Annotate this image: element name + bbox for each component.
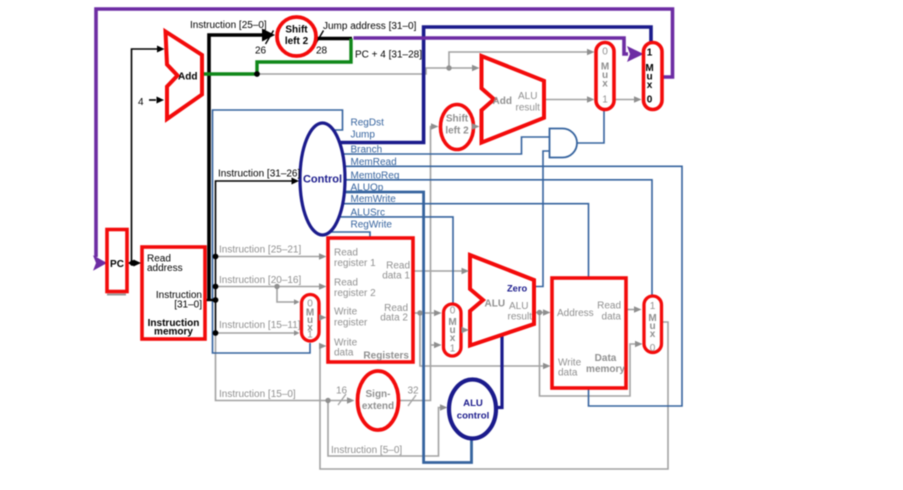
node PC+4 green split [254, 71, 260, 77]
svg-text:26: 26 [255, 46, 267, 57]
arrowhead instr 15-0 to sign extend [347, 397, 355, 404]
node instruction bus 25-21 [213, 254, 219, 260]
bus width slash 26 [266, 31, 274, 45]
wire ALU result bypass to memtoreg mux 0 [540, 313, 636, 397]
bus width slash 28 [316, 31, 324, 45]
wire Instruction 20-16 branch to regdst mux 0 [277, 287, 294, 303]
svg-text:Data: Data [595, 353, 617, 364]
svg-text:data: data [558, 368, 578, 379]
arrowhead instr 25-21 to read reg 1 [319, 253, 327, 260]
arrowhead 4 to Add1 [157, 97, 165, 104]
node ALU result split [537, 310, 542, 315]
svg-text:ALU: ALU [518, 91, 537, 102]
arrowhead to regdst mux 1 [294, 330, 300, 336]
wire ALUSrc mux out to ALU [461, 329, 462, 331]
arrowhead read data 1 to ALU [462, 268, 470, 275]
wire AND output to branch mux select [577, 111, 604, 143]
arrowhead PC to Add1 [157, 46, 165, 53]
control ellipse [300, 123, 345, 235]
arrowhead read data to memtoreg mux 1 [634, 306, 642, 313]
svg-text:Zero: Zero [507, 284, 527, 294]
wire jump mux output wrap to PC (purple) [96, 9, 673, 257]
svg-text:4: 4 [138, 97, 144, 108]
svg-text:Shift: Shift [285, 25, 308, 36]
arrowhead signext to alusrc mux 1 [434, 342, 442, 349]
svg-text:Add: Add [493, 96, 512, 107]
svg-text:data: data [334, 348, 354, 359]
svg-text:left 2: left 2 [445, 126, 469, 137]
svg-text:Shift: Shift [446, 114, 469, 125]
registers box [328, 238, 413, 362]
wire PC box shadow [107, 294, 126, 296]
wire ALUSrc from control to ALUSrc mux [335, 217, 453, 303]
shift left 2 ellipse small [441, 105, 474, 150]
adder Add2 branch target [482, 56, 545, 143]
wire Jump from control to jump mux select (navy) [335, 27, 651, 143]
wire Instruction 25-21 to Read register 1 [216, 256, 320, 258]
wire RegWrite from control to registers [328, 232, 370, 237]
arrowhead bypass to memtoreg mux 0 [635, 341, 643, 348]
svg-text:28: 28 [316, 46, 328, 57]
and gate [550, 129, 578, 158]
wire sign-extend branch to ALUSrc mux 1 [431, 344, 435, 346]
wire Instruction 31-26 to control [216, 181, 293, 333]
svg-text:Address: Address [557, 308, 594, 319]
arrowhead read data 2 to alusrc mux [434, 310, 442, 317]
svg-text:Instruction [5–0]: Instruction [5–0] [331, 445, 402, 456]
svg-text:PC + 4 [31–28]: PC + 4 [31–28] [355, 50, 422, 61]
shift left 2 ellipse top [277, 17, 316, 56]
svg-text:x: x [602, 79, 608, 90]
wire ALU result to memory Address [534, 312, 543, 314]
adder Add1 [166, 32, 203, 120]
arrowhead ALU result to address [543, 309, 551, 316]
wire Instruction 20-16 to Read register 2 [216, 286, 320, 288]
svg-text:ALU: ALU [463, 398, 483, 409]
svg-text:0: 0 [650, 343, 656, 354]
wire PC+4 31-28 green path [203, 39, 351, 75]
wire write-back wrap from memtoreg mux to registers Write data [319, 322, 668, 469]
wire Add2 result to branch mux 1 [544, 99, 587, 101]
wire Instruction 5-0 to ALU control [328, 401, 440, 457]
mux regdst [302, 295, 320, 342]
instruction memory box [142, 247, 205, 339]
slash 16 [338, 394, 346, 405]
mux branch [596, 43, 614, 110]
mux memtoreg [644, 296, 662, 353]
arrowhead to memory write data [543, 363, 551, 370]
wire sign-extend output up to shift-left-2 [399, 127, 432, 401]
svg-text:1: 1 [602, 95, 608, 106]
arrowhead instr 20-16 to read reg 2 [319, 283, 327, 290]
svg-text:1: 1 [647, 48, 653, 59]
svg-text:Instruction [20–16]: Instruction [20–16] [219, 275, 301, 286]
wire MemRead from control to memory bottom [340, 166, 682, 406]
svg-text:ALU: ALU [509, 301, 528, 312]
arrowhead regdst mux to write register [319, 314, 327, 321]
svg-text:control: control [457, 411, 490, 422]
arrowhead PC+4 into branch mux 0 [587, 49, 595, 56]
svg-text:x: x [450, 333, 456, 344]
svg-text:Write: Write [334, 307, 358, 318]
svg-text:extend: extend [362, 401, 394, 412]
svg-text:Instruction [31–26]: Instruction [31–26] [218, 169, 300, 180]
wire Branch from control to AND gate [338, 137, 549, 154]
wire constant 4 to Add1 [149, 99, 156, 101]
svg-text:32: 32 [408, 386, 420, 397]
svg-text:data 1: data 1 [382, 271, 410, 282]
arrowhead PC to inst memory [134, 260, 142, 267]
svg-text:Sign-: Sign- [366, 389, 391, 400]
svg-text:ALU: ALU [485, 299, 506, 310]
wire ALU control output to ALU (navy) [496, 331, 502, 408]
ALU main [470, 255, 534, 346]
wire MemWrite from control to memory top [339, 204, 589, 277]
svg-text:Branch: Branch [351, 145, 383, 156]
svg-text:register 1: register 1 [334, 258, 376, 269]
wire branch mux out to jump mux 0 [614, 99, 634, 101]
wire Instruction 25-0 bus to shift left 2 (thick) [209, 35, 263, 300]
wire Read data 2 to ALUSrc mux 0 [413, 312, 434, 314]
svg-text:0: 0 [450, 306, 456, 317]
svg-text:result: result [508, 312, 533, 323]
ALU control ellipse [449, 380, 496, 439]
svg-text:memory: memory [586, 364, 625, 375]
node instr 20-16 split [274, 284, 279, 289]
wire PC output to instruction memory [127, 262, 134, 264]
node instruction bus 15-11 [213, 330, 219, 336]
wire Instruction 15-11 to regdst mux 1 [216, 332, 295, 334]
mux alusrc [444, 304, 462, 356]
svg-text:[31–0]: [31–0] [174, 300, 202, 311]
svg-text:1: 1 [650, 301, 656, 312]
wire shifted jump address 28 bits [314, 37, 352, 40]
wire Instruction 15-0 from bus to sign extend [216, 333, 348, 401]
svg-text:Jump address [31–0]: Jump address [31–0] [323, 21, 417, 32]
svg-text:result: result [516, 103, 541, 114]
svg-text:Instruction [25–0]: Instruction [25–0] [190, 20, 267, 31]
node instruction bus 20-16 [213, 284, 219, 290]
arrowhead wrap to registers write data [319, 343, 327, 350]
svg-text:memory: memory [154, 327, 193, 338]
svg-text:1: 1 [450, 344, 456, 355]
svg-text:Jump: Jump [351, 130, 376, 141]
arrowhead instruction 31-26 to control [292, 178, 300, 185]
arrowhead into shift small [431, 123, 439, 130]
svg-text:data 2: data 2 [380, 313, 408, 324]
svg-text:address: address [147, 263, 183, 274]
svg-text:MemtoReg: MemtoReg [351, 171, 400, 182]
svg-text:x: x [650, 329, 656, 340]
svg-text:Read: Read [334, 278, 358, 289]
svg-text:register: register [334, 318, 368, 329]
svg-text:Instruction [15–0]: Instruction [15–0] [219, 389, 296, 400]
svg-text:x: x [647, 80, 653, 91]
svg-text:Read: Read [597, 301, 621, 312]
arrowhead big black into shift left 2 [262, 29, 275, 42]
arrowhead instr 5-0 to ALU control [440, 404, 448, 411]
svg-text:MemWrite: MemWrite [351, 194, 397, 205]
wire ALUOp from control to ALU control [333, 192, 472, 463]
svg-text:Instruction [15–11]: Instruction [15–11] [219, 320, 301, 331]
svg-text:ALUOp: ALUOp [351, 183, 384, 194]
svg-text:Instruction [25–21]: Instruction [25–21] [219, 245, 301, 256]
svg-text:Add: Add [178, 72, 197, 83]
wire PC+4 gray from Add to branch mux 0 [205, 52, 587, 74]
wire regdst mux out to Write register [319, 317, 320, 319]
arrowhead branch mux to jump mux 0 [634, 96, 642, 103]
wire memory Read data to memtoreg mux 1 [626, 309, 634, 311]
sign extend ellipse [358, 371, 399, 430]
arrowhead purple into jump mux [627, 46, 644, 62]
arrowhead to regdst mux 0 [294, 299, 300, 305]
wire RegDst from control to regdst mux [213, 110, 343, 353]
wire shift-left-2 small out to Add2 [474, 126, 476, 128]
wire Read data 2 branch to memory Write data [420, 313, 543, 366]
svg-text:PC: PC [110, 259, 124, 270]
svg-text:Control: Control [303, 174, 342, 186]
svg-text:Read: Read [334, 248, 358, 259]
arrowhead PC+4 into Add2 [472, 65, 480, 72]
svg-text:MemRead: MemRead [351, 157, 397, 168]
node PC output junction [130, 260, 136, 266]
wire PC to Add1 [132, 49, 158, 263]
wire MemtoReg from control to memtoreg mux [341, 180, 652, 295]
register PC [107, 230, 127, 292]
svg-text:RegWrite: RegWrite [351, 220, 393, 231]
svg-text:RegDst: RegDst [351, 118, 385, 129]
node read data 2 split [417, 310, 422, 315]
svg-text:data: data [602, 312, 622, 323]
wire instruction bus stub [204, 299, 216, 301]
svg-text:Registers: Registers [363, 351, 409, 362]
svg-text:left 2: left 2 [285, 36, 309, 47]
svg-text:0: 0 [647, 95, 653, 106]
arrowhead shift small to Add2 [472, 123, 480, 130]
wire PC+4 branch into Add2 top input [449, 67, 472, 69]
svg-text:1: 1 [307, 330, 313, 341]
wire Read data 1 to ALU [413, 270, 462, 272]
svg-text:0: 0 [602, 47, 608, 58]
arrowhead Add2 to branch mux 1 [587, 96, 595, 103]
node instruction bus main [213, 297, 219, 303]
svg-text:ALUSrc: ALUSrc [351, 207, 385, 218]
arrowhead purple into PC [93, 255, 107, 270]
wire Zero from ALU to AND gate [534, 151, 549, 287]
arrowhead alusrc mux to ALU [462, 327, 470, 334]
node instr 15-0 split [325, 398, 330, 403]
data memory box [552, 278, 626, 388]
node PC+4 split to add2 [446, 65, 451, 70]
svg-text:register 2: register 2 [334, 288, 376, 299]
slash 32 [408, 395, 416, 406]
wire jump address to jump mux 1 (purple) [354, 38, 629, 54]
mux jump [644, 43, 663, 110]
